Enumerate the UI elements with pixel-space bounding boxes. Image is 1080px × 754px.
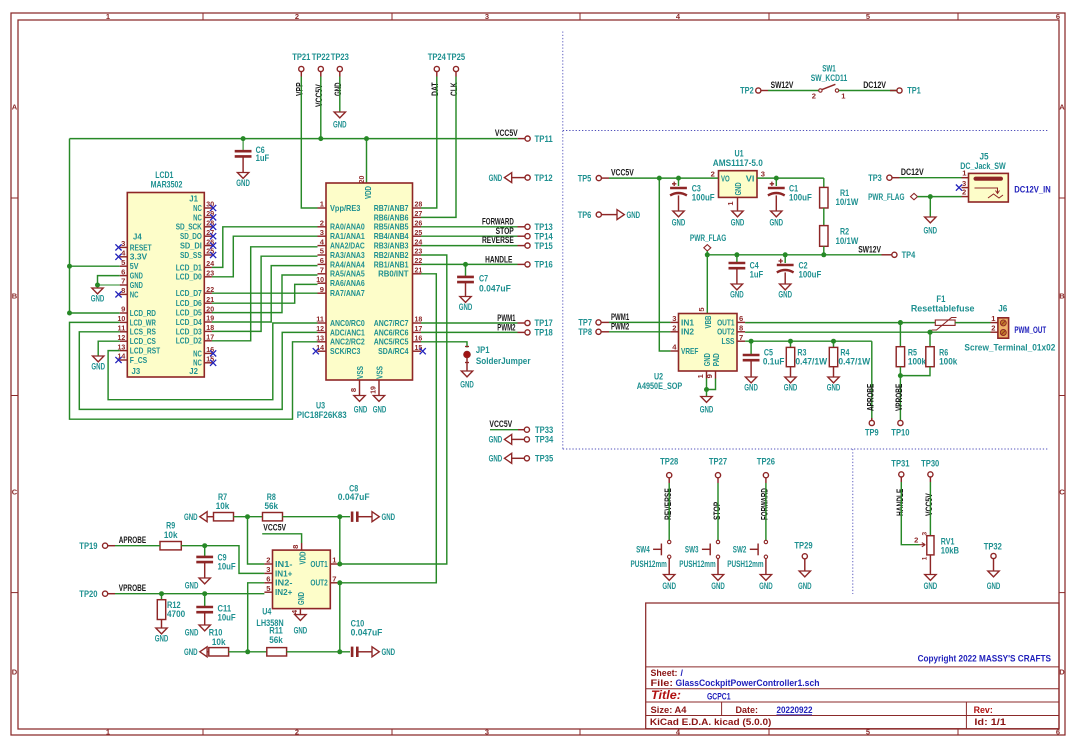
wire pin25 to TP14 (421, 235, 518, 237)
junction J5 gnd (928, 194, 933, 199)
svg-text:U2: U2 (654, 371, 663, 381)
U4 pin 3 IN1+ (264, 572, 272, 574)
resistor R12 (161, 594, 163, 600)
svg-text:8: 8 (121, 286, 125, 295)
wire LCD_D0 to U3 pin3 (212, 236, 318, 277)
svg-text:SW4: SW4 (636, 545, 650, 555)
wire TP25 CLK down to U3 pin27 (421, 77, 456, 218)
svg-text:5: 5 (866, 12, 870, 21)
resistor R4 (833, 341, 835, 347)
connector J6 screw terminal (998, 318, 1009, 338)
svg-text:TP20: TP20 (79, 589, 97, 599)
U3 pin 16 ANC5/RC5 (413, 341, 422, 343)
LCD1 pin 25 SD_SS (204, 254, 212, 256)
junction R2-rail (821, 252, 826, 257)
svg-text:FORWARD: FORWARD (760, 488, 770, 520)
svg-text:Rev:: Rev: (974, 705, 993, 715)
junction PWRFLAG (705, 252, 710, 257)
junction rail1-out1 (337, 514, 342, 519)
LCD1 pin 20 LCD_D5 (204, 312, 212, 314)
U3 pin 21 RB0/INT (413, 273, 422, 275)
U4 pin 5 IN2+ (264, 591, 272, 593)
svg-text:PWM2: PWM2 (497, 322, 515, 332)
U3 pin 11 ANC0/RC0 (318, 322, 327, 324)
U3 pin 19 VSS (378, 380, 380, 396)
svg-text:0.47/1W: 0.47/1W (795, 357, 827, 367)
U3 pin 12 ADC/ANC1 (318, 331, 327, 333)
regulator U1 AMS1117-5.0 (719, 171, 758, 198)
svg-text:LCD_D0: LCD_D0 (176, 272, 202, 282)
svg-text:PWR_FLAG: PWR_FLAG (690, 233, 726, 243)
svg-text:2: 2 (672, 324, 676, 333)
svg-text:SW2: SW2 (733, 545, 747, 555)
svg-text:TP8: TP8 (578, 327, 592, 337)
svg-text:1uF: 1uF (256, 153, 270, 163)
wire LCD_D4 to U3 pin6 (212, 266, 318, 322)
svg-text:2: 2 (320, 219, 324, 228)
junction VDD-rail (364, 136, 369, 141)
section divider dashed horizontal mid right (563, 448, 1048, 450)
svg-text:3: 3 (962, 179, 966, 188)
test point TP33 (490, 429, 518, 431)
U3 pin 10 RA6/ANA6 (318, 282, 327, 284)
svg-text:DC12V: DC12V (901, 167, 924, 177)
push button SW4 (668, 540, 671, 543)
svg-text:GCPC1: GCPC1 (707, 692, 731, 702)
junction R3 (788, 339, 793, 344)
ground RV1 (929, 555, 931, 575)
wire TP27 to SW3 (717, 483, 719, 540)
svg-text:56k: 56k (269, 635, 283, 645)
svg-text:10/1W: 10/1W (836, 236, 859, 246)
junction VREF drop (657, 176, 662, 181)
svg-text:3: 3 (672, 314, 676, 323)
wire LCS_RS to U3 pin12 (79, 332, 317, 410)
U4 pin 2 IN1- (264, 563, 272, 565)
svg-text:APROBE: APROBE (866, 384, 876, 411)
wire R5 bottom to TP10 (899, 367, 901, 421)
svg-text:8: 8 (349, 388, 358, 392)
wire TP31 to RV1 wiper (901, 482, 919, 545)
U3 pin 7 RA5/ANA5 (318, 273, 327, 275)
junction R12 (159, 591, 164, 596)
wire TP28 to SW4 (668, 483, 670, 540)
op-amp U4 LH358N body (273, 550, 331, 609)
U2 pin 2 IN2 (670, 331, 678, 333)
svg-text:Id: 1/1: Id: 1/1 (974, 717, 1006, 727)
svg-text:GND: GND (296, 592, 306, 605)
wire VDD drop to U3 (366, 139, 368, 183)
svg-text:VI: VI (746, 173, 755, 183)
capacitor C10 (351, 647, 354, 657)
wire LCD GND pins 6,7 (98, 276, 120, 288)
svg-text:8: 8 (291, 545, 300, 549)
junction LCD gnd (95, 283, 100, 288)
svg-text:GND: GND (711, 581, 725, 591)
U4 pin 4 GND (299, 609, 301, 615)
wire LSS rail (745, 340, 872, 342)
U3 pin 1 Vpp/RE3 (318, 207, 327, 209)
svg-text:IN2+: IN2+ (275, 587, 292, 597)
svg-text:SDA/RC4: SDA/RC4 (378, 346, 409, 356)
svg-text:VCC5V: VCC5V (495, 128, 518, 138)
svg-text:VO: VO (721, 173, 730, 183)
U3 pin 14 SCK/RC3 (318, 350, 327, 352)
svg-text:GND: GND (924, 581, 938, 591)
svg-text:GND: GND (662, 581, 676, 591)
svg-text:VCC5V: VCC5V (314, 84, 324, 107)
resistor R3 (790, 341, 792, 347)
ground SW2 (765, 559, 767, 575)
svg-text:SW_KCD11: SW_KCD11 (811, 73, 847, 83)
junction 5V (67, 264, 72, 269)
svg-text:6: 6 (739, 314, 743, 323)
LCD1 pin 13 LCD_RST (120, 350, 128, 352)
svg-text:TP5: TP5 (578, 173, 592, 183)
svg-text:6: 6 (1056, 12, 1060, 21)
capacitor C6 (242, 139, 244, 152)
junction C1 (774, 176, 779, 181)
U3 pin 9 RA7/ANA7 (318, 292, 327, 294)
svg-text:SW3: SW3 (685, 545, 699, 555)
wire pin16 to JP1 (421, 342, 467, 348)
svg-text:GND: GND (627, 210, 641, 220)
svg-text:CLK: CLK (449, 82, 459, 96)
svg-text:J3: J3 (132, 366, 141, 376)
junction C2 (783, 252, 788, 257)
svg-text:1: 1 (106, 12, 110, 21)
svg-text:6: 6 (266, 575, 270, 584)
svg-text:TP4: TP4 (902, 250, 916, 260)
svg-text:7: 7 (320, 266, 324, 275)
svg-text:C: C (12, 488, 18, 497)
svg-text:J4: J4 (133, 232, 142, 242)
junction U2 gnd (704, 387, 709, 392)
svg-text:REVERSE: REVERSE (482, 235, 514, 245)
svg-text:9: 9 (320, 285, 324, 294)
svg-text:RB0/INT: RB0/INT (378, 269, 409, 279)
svg-text:TP28: TP28 (660, 457, 678, 467)
svg-text:TP21: TP21 (292, 52, 310, 62)
resistor R1 (823, 178, 825, 187)
ground symbol LCD pins 6-7 (92, 288, 103, 294)
svg-text:NC: NC (193, 358, 202, 368)
wire TP8 to IN2 (609, 331, 670, 333)
svg-text:Sheet:: Sheet: (651, 668, 678, 678)
svg-text:A: A (12, 103, 18, 112)
svg-text:7: 7 (739, 333, 743, 342)
wire OUT2 to J6 (745, 331, 990, 333)
svg-text:GND: GND (784, 383, 798, 393)
wire TP23 GND down (339, 77, 341, 111)
svg-text:REVERSE: REVERSE (663, 488, 673, 520)
svg-text:A: A (1059, 103, 1065, 112)
svg-text:GND: GND (373, 405, 387, 415)
svg-text:PUSH12mm: PUSH12mm (727, 559, 763, 569)
svg-text:File:: File: (651, 678, 674, 688)
svg-text:20: 20 (357, 176, 366, 184)
svg-text:3: 3 (266, 565, 270, 574)
svg-text:27: 27 (415, 209, 423, 218)
LCD1 MAR3502 body (127, 193, 204, 378)
LCD1 pin 28 SD_SCK (204, 226, 212, 228)
U3 pin 2 RA0/ANA0 (318, 226, 327, 228)
wire LCD_D5 to U3 pin7 (212, 275, 318, 313)
svg-text:TP34: TP34 (535, 435, 553, 445)
wire OUT1 up to rail1 (339, 517, 341, 564)
svg-text:VCC5V: VCC5V (924, 493, 934, 516)
svg-text:GND: GND (155, 634, 169, 644)
svg-text:1: 1 (922, 556, 929, 560)
junction R6 top (928, 330, 933, 335)
U2 gnd pad pins (706, 371, 708, 379)
wire VREF from VCC5V (659, 178, 670, 351)
U3 pin 15 SDA/RC4 (413, 350, 422, 352)
svg-text:GND: GND (333, 82, 343, 96)
wire VCC5V to U4 VDD (262, 534, 301, 543)
wire SW1 to TP1 (839, 90, 897, 92)
LCD1 pin 15 NC (204, 362, 212, 364)
svg-text:SolderJumper: SolderJumper (476, 356, 531, 366)
svg-text:19: 19 (369, 386, 378, 394)
svg-text:10: 10 (316, 275, 324, 284)
LCD1 pin 29 NC (204, 216, 212, 218)
svg-text:JP1: JP1 (476, 345, 490, 355)
wire VCC5V rail (70, 138, 518, 140)
wire LCD_D6 to U3 pin10 (212, 284, 318, 303)
LCD1 pin 19 LCD_D4 (204, 321, 212, 323)
U2 pin 3 IN1 (670, 321, 678, 323)
svg-text:GND: GND (459, 302, 473, 312)
wire TP21 VPP down to U3 pin1 (301, 77, 317, 209)
svg-text:GND: GND (489, 454, 503, 464)
svg-text:D: D (1059, 668, 1065, 677)
svg-text:100uF: 100uF (692, 192, 715, 202)
svg-text:VSS: VSS (375, 366, 385, 379)
svg-text:1uF: 1uF (750, 269, 764, 279)
svg-text:0.047uF: 0.047uF (479, 283, 511, 293)
svg-text:10k: 10k (212, 637, 226, 647)
svg-text:SW12V: SW12V (771, 80, 794, 90)
svg-text:VREF: VREF (681, 346, 698, 356)
resistor R11 (267, 648, 287, 656)
svg-text:GND: GND (672, 218, 686, 228)
svg-text:VDD: VDD (297, 552, 307, 565)
wire LCD_D1 to U3 pin2 (212, 227, 318, 268)
svg-text:MAR3502: MAR3502 (151, 180, 183, 190)
svg-text:TP31: TP31 (891, 459, 909, 469)
svg-text:VPP: VPP (295, 82, 305, 96)
svg-text:9: 9 (121, 305, 125, 314)
svg-text:VCC5V: VCC5V (489, 419, 512, 429)
svg-text:TP23: TP23 (331, 52, 349, 62)
svg-text:D: D (12, 668, 18, 677)
svg-text:VPROBE: VPROBE (894, 384, 904, 411)
svg-text:TP32: TP32 (984, 542, 1002, 552)
svg-text:TP35: TP35 (535, 454, 553, 464)
wire TP7 to IN1 (609, 321, 670, 323)
wire IN2- down to rail2 (248, 583, 265, 652)
svg-text:10/1W: 10/1W (836, 197, 859, 207)
wire TP30 to RV1 (929, 482, 931, 536)
svg-text:9: 9 (705, 374, 714, 378)
test point TP10 (898, 420, 903, 425)
svg-text:GND: GND (798, 581, 812, 591)
svg-text:GND: GND (460, 380, 474, 390)
section divider dashed vertical bottom right (852, 449, 854, 594)
LCD1 pin 6 GND (120, 275, 128, 277)
ground SW3 (717, 559, 719, 575)
svg-text:1: 1 (106, 728, 110, 737)
U3 pin 5 RA3/ANA3 (318, 254, 327, 256)
LCD1 pin 26 SD_DI (204, 245, 212, 247)
svg-text:3: 3 (121, 239, 125, 248)
wire TP3 to J5 (900, 177, 962, 179)
svg-text:10k: 10k (216, 501, 230, 511)
svg-text:Title:: Title: (651, 690, 681, 702)
svg-text:C7: C7 (479, 274, 488, 284)
svg-text:TP30: TP30 (921, 459, 939, 469)
svg-text:6: 6 (320, 256, 324, 265)
svg-text:GND: GND (730, 290, 744, 300)
wire OUT2 down to rail2 (339, 583, 341, 652)
svg-text:SCK/RC3: SCK/RC3 (330, 346, 361, 356)
ground symbol below TP23 (339, 111, 341, 113)
svg-text:GND: GND (184, 647, 198, 657)
wire pin17 to TP18 (421, 331, 518, 333)
wire R9 to IN1-junction (181, 545, 204, 547)
svg-text:SD_SS: SD_SS (180, 250, 202, 260)
junction R7R8 (245, 514, 250, 519)
svg-text:56k: 56k (265, 501, 279, 511)
svg-text:U4: U4 (262, 607, 271, 617)
op-amp U3 PIC18F26K83 body (326, 183, 413, 380)
wire LCD_WR to U3 pin13 (70, 322, 318, 419)
svg-text:7: 7 (332, 575, 336, 584)
svg-text:TP27: TP27 (709, 457, 727, 467)
LCD1 pin 21 LCD_D6 (204, 302, 212, 304)
svg-text:3: 3 (922, 532, 929, 536)
svg-text:GND: GND (924, 226, 938, 236)
U3 pin 3 RA1/ANA1 (318, 235, 327, 237)
svg-text:VCC5V: VCC5V (611, 168, 634, 178)
wire LCD_D2 to U3 pin4 (212, 247, 318, 341)
LCD1 pin 8 NC (120, 293, 128, 295)
svg-text:0.047uF: 0.047uF (351, 627, 383, 637)
svg-text:10uF: 10uF (218, 562, 237, 572)
wire to U4 IN1+ (205, 546, 265, 574)
U3 pin 25 RB4/ANB4 (413, 235, 422, 237)
U3 pin 26 RB5/ANB5 (413, 226, 422, 228)
svg-text:0.47/1W: 0.47/1W (838, 357, 870, 367)
junction C9 (202, 543, 207, 548)
svg-text:Copyright 2022 MASSY'S CRAFTS: Copyright 2022 MASSY'S CRAFTS (918, 654, 1051, 664)
svg-text:GND: GND (185, 628, 199, 638)
svg-text:TP6: TP6 (578, 210, 592, 220)
ground SW4 (668, 559, 670, 575)
svg-text:2: 2 (914, 535, 918, 544)
svg-text:VDD: VDD (363, 186, 373, 199)
U3 pin 6 RA4/ANA4 (318, 263, 327, 265)
U2 pin 4 VREF (670, 350, 678, 352)
LCD1 pin 27 SD_DO (204, 235, 212, 237)
svg-text:Size: A4: Size: A4 (651, 705, 687, 715)
svg-text:3: 3 (320, 228, 324, 237)
U2 pin 7 LSS (737, 340, 745, 342)
svg-text:2: 2 (991, 324, 995, 333)
svg-text:GND: GND (236, 178, 250, 188)
U3 pin 27 RB6/ANB6 (413, 216, 422, 218)
svg-text:GND: GND (778, 290, 792, 300)
U3 pin 18 ANC7/RC7 (413, 322, 422, 324)
LCD1 pin 10 LCD_WR (120, 321, 128, 323)
svg-text:Screw_Terminal_01x02: Screw_Terminal_01x02 (964, 343, 1055, 353)
svg-text:TP22: TP22 (312, 52, 330, 62)
LCD1 pin 16 NC (204, 352, 212, 354)
svg-text:DAT: DAT (430, 82, 440, 96)
resistor R8 (263, 513, 283, 521)
wire LCD_RST to U3 pin11 (108, 323, 317, 400)
svg-text:IN2: IN2 (681, 327, 694, 337)
svg-text:GlassCockpitPowerController1.s: GlassCockpitPowerController1.sch (676, 678, 820, 688)
LCD1 pin 5 5V (120, 265, 128, 267)
svg-text:3: 3 (761, 170, 765, 179)
wire TP22 VCC5V down to rail (320, 77, 322, 139)
wire LCD_D3 to U3 pin5 (212, 256, 318, 331)
svg-text:DC12V_IN: DC12V_IN (1014, 184, 1050, 194)
svg-text:TP33: TP33 (535, 425, 553, 435)
wire LCD_D7 to U3 pin9 (212, 292, 318, 294)
svg-text:RA7/ANA7: RA7/ANA7 (330, 288, 365, 298)
wire pin21 down to OUT2 of U4 (340, 274, 437, 583)
svg-text:6: 6 (121, 267, 125, 276)
svg-text:2: 2 (711, 170, 715, 179)
capacitor C9 (204, 546, 206, 557)
svg-text:GND: GND (770, 218, 784, 228)
LCD1 pin 9 LCD_RD (120, 312, 128, 314)
svg-text:GND: GND (744, 383, 758, 393)
svg-text:2: 2 (295, 728, 299, 737)
LCD1 pin 3 RESET (120, 246, 128, 248)
wire VPROBE rail to IN2+ (115, 593, 264, 595)
test point TP12 to GND label (504, 173, 511, 183)
wire R7-R8 (234, 516, 263, 518)
svg-text:PUSH12mm: PUSH12mm (631, 559, 667, 569)
U3 pin 8 VSS (359, 380, 361, 396)
svg-text:GND: GND (759, 581, 773, 591)
svg-text:4700: 4700 (167, 609, 185, 619)
svg-text:GND: GND (382, 647, 396, 657)
wire 5V to VCC5V vertical (69, 139, 71, 313)
U3 pin 23 RB2/ANB2 (413, 254, 422, 256)
svg-text:20220922: 20220922 (777, 705, 813, 715)
svg-text:GND: GND (91, 362, 105, 372)
svg-text:3: 3 (485, 12, 489, 21)
junction C3 (676, 176, 681, 181)
svg-text:PUSH12mm: PUSH12mm (679, 559, 715, 569)
svg-text:GND: GND (382, 512, 396, 522)
svg-text:AMS1117-5.0: AMS1117-5.0 (713, 158, 763, 168)
svg-text:11: 11 (316, 315, 325, 324)
wire TP24 DAT down to U3 pin28 (421, 77, 437, 209)
LCD1 pin 14 F_CS (120, 359, 128, 361)
LCD1 pin 12 LCD_CS (120, 340, 128, 342)
svg-text:LCD_D7: LCD_D7 (176, 288, 202, 298)
wire LCD_RD to vertical (70, 312, 120, 314)
capacitor C2 (784, 255, 786, 263)
junction TP22-rail (318, 136, 323, 141)
resistor R10 (200, 647, 207, 657)
